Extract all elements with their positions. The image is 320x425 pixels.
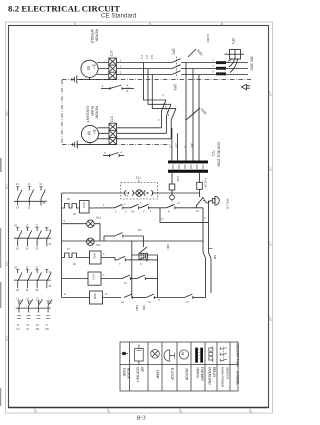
svg-text:MOTOR: MOTOR <box>185 369 189 382</box>
fuse FU1a <box>216 61 226 64</box>
svg-text:PE: PE <box>46 328 50 331</box>
svg-text:CE Standard: CE Standard <box>101 13 137 20</box>
outer light frame <box>6 22 273 413</box>
stop button SB1 <box>115 204 131 209</box>
annotation -KM1 with leader <box>188 48 204 57</box>
wires fuses to socket <box>228 59 238 73</box>
svg-text:MOTOR: MOTOR <box>95 106 99 119</box>
relay box KA1 <box>80 201 90 214</box>
symbol fuse block <box>122 352 129 355</box>
svg-text:FU3: FU3 <box>176 176 180 182</box>
aux group 1 contact a <box>16 183 22 210</box>
overload contact FR1 <box>62 204 80 209</box>
svg-text:EL1: EL1 <box>136 176 141 180</box>
wire rung C <box>80 258 118 260</box>
labels bottom rung <box>135 299 161 311</box>
interlock switch S2 <box>103 153 124 158</box>
contact on rung C1 <box>117 256 139 261</box>
lamp assembly dashed box <box>121 183 158 200</box>
frame tick top 1 <box>74 22 76 26</box>
dash-dot enclosure left <box>61 80 63 145</box>
fuse FU1c <box>216 72 226 75</box>
aux group 4 contact a <box>17 298 24 313</box>
svg-text:8-3: 8-3 <box>137 415 146 422</box>
main line L1 <box>116 62 248 64</box>
svg-text:KA1: KA1 <box>82 203 86 209</box>
timer coil hatched <box>139 236 148 260</box>
aux group 3 contact a <box>15 266 23 292</box>
transformer TC1 secondary bar <box>168 170 208 173</box>
svg-text:2L2: 2L2 <box>145 55 148 60</box>
fuse FU3 <box>169 184 175 190</box>
left rail <box>61 193 63 298</box>
dash-dot enclosure second <box>62 144 170 146</box>
right rail A <box>203 208 206 298</box>
wires motor1 to block <box>97 63 109 75</box>
wire switch to horn wavy <box>203 200 212 203</box>
motor M2 coolant pump <box>81 125 98 142</box>
plug under FU3 <box>170 195 175 202</box>
table outer <box>120 342 238 391</box>
svg-text:N: N <box>46 324 48 327</box>
annotation -KM2 with leader <box>186 107 208 120</box>
contact rung D2 <box>137 275 158 280</box>
svg-text:PUMP: PUMP <box>90 106 94 117</box>
svg-text:M: M <box>87 131 92 135</box>
frame tick top 2 <box>149 22 151 26</box>
svg-text:E: E <box>269 316 271 320</box>
symbol contactor <box>135 345 144 365</box>
secondary tap with fuse FU3 <box>171 173 173 184</box>
symbol motor <box>179 350 188 359</box>
ground PE motor1 <box>72 75 77 83</box>
svg-text:N: N <box>50 302 52 305</box>
contactor KM2 pole 3 <box>171 109 176 139</box>
aux group 3 contact d <box>45 269 52 288</box>
main line L2 <box>116 68 248 70</box>
dash-dot enclosure top <box>62 79 251 81</box>
svg-text:KA2: KA2 <box>93 253 97 259</box>
aux group 2 contact c <box>35 225 41 251</box>
svg-text:B: B <box>6 111 8 115</box>
vertical drop from rung1 <box>160 208 209 223</box>
frame tick left set <box>6 115 10 340</box>
svg-text:FUSE: FUSE <box>122 368 126 377</box>
motor M1 spindle <box>81 60 98 77</box>
aux group 2 bar <box>14 237 51 239</box>
symbol e-stop <box>164 350 175 361</box>
svg-text:CONTROL 150W: CONTROL 150W <box>217 142 221 167</box>
svg-text:FU2 2A: FU2 2A <box>204 178 208 188</box>
svg-text:5 6: 5 6 <box>131 210 135 214</box>
terminal block XT2 <box>109 58 117 79</box>
svg-text:3~: 3~ <box>92 129 97 134</box>
wire switch bottom to rung <box>196 206 198 208</box>
contactor KM2 pole 1 <box>162 100 167 128</box>
zone digits frame <box>6 22 272 413</box>
timer box KT <box>88 272 101 285</box>
aux group 4 bottom labels <box>17 324 50 331</box>
aux group 4 terminal marks <box>17 316 50 319</box>
svg-text:3L3: 3L3 <box>150 55 153 60</box>
desc fuse block <box>122 368 131 380</box>
contactor KM2 pole 2 <box>167 104 172 133</box>
symbol overload <box>209 347 213 363</box>
symbol lamp <box>151 350 160 359</box>
aux group 4 contact d <box>46 300 52 313</box>
frame tick top 3 <box>221 22 223 26</box>
transformer winding ticks <box>173 165 203 170</box>
svg-text:B: B <box>269 91 271 95</box>
transformer TC1 primary bar <box>168 161 208 164</box>
secondary tap with fuse FU2 <box>199 173 201 183</box>
bottom rung <box>62 297 122 299</box>
contact rung D1 <box>122 275 137 280</box>
micro wire labels top <box>120 34 215 122</box>
label mains right <box>250 56 254 71</box>
desc overload <box>208 367 217 385</box>
svg-text:4PC1 B: 4PC1 B <box>226 199 230 209</box>
taps to transformer primary <box>186 63 199 161</box>
contactor KM1 pole 1 <box>172 59 181 63</box>
svg-text:U: U <box>162 94 164 97</box>
socket XP1 <box>225 50 245 60</box>
svg-text:M: M <box>86 66 91 70</box>
svg-text:1L1: 1L1 <box>140 55 143 60</box>
aux group 1 contact c <box>39 183 46 206</box>
desc main power switch <box>221 367 230 388</box>
svg-text:KT1: KT1 <box>92 275 96 281</box>
svg-text:XT2: XT2 <box>109 51 113 57</box>
button SB3 <box>141 204 167 209</box>
KM1 link dashed <box>176 57 178 78</box>
svg-text:D: D <box>6 261 8 265</box>
svg-text:KM: KM <box>213 255 217 260</box>
terminal block XT3 <box>109 123 117 144</box>
contact KA right <box>167 204 204 209</box>
svg-text:C: C <box>6 184 8 188</box>
control feed rail top <box>62 192 119 194</box>
svg-text:M: M <box>181 352 186 355</box>
svg-text:SWITCH: SWITCH <box>226 367 230 379</box>
taps from pump lines to primary <box>172 128 178 161</box>
svg-text:3PH 380V: 3PH 380V <box>250 56 254 71</box>
contact KT upper <box>104 233 143 242</box>
svg-text:220: 220 <box>175 143 179 148</box>
wire rung D <box>62 278 122 280</box>
contact bottom 1 <box>124 294 146 299</box>
svg-text:AC380V: AC380V <box>206 34 209 43</box>
contact on rung C2 <box>139 256 158 261</box>
frame tick bottom set <box>35 408 250 413</box>
aux group 3 bar <box>14 279 51 281</box>
motor M1 label M 3~ <box>86 64 97 70</box>
S1 labels <box>102 84 129 94</box>
main line L3 <box>116 74 248 76</box>
right rail B <box>209 203 212 293</box>
aux group 2 contact a <box>15 225 23 251</box>
wires motor2 to block <box>97 128 109 139</box>
micro pin labels <box>64 195 207 305</box>
svg-text:MAIN POWER: MAIN POWER <box>221 367 225 388</box>
svg-text:OR: OR <box>140 367 144 372</box>
contact bottom 3 <box>185 294 206 299</box>
lamp box top tick <box>136 176 141 183</box>
inner frame <box>9 26 269 408</box>
fuse FU2 <box>197 182 203 189</box>
symbol main switch <box>220 347 227 362</box>
svg-text:QF1: QF1 <box>172 49 176 55</box>
frame tick right set <box>269 95 273 320</box>
branch taps down <box>144 63 177 109</box>
button SB2 <box>131 204 141 209</box>
aux group 4 contact c <box>36 298 43 313</box>
rail B top hook <box>208 201 210 204</box>
svg-text:KM1: KM1 <box>166 244 170 250</box>
svg-text:RELAY: RELAY <box>212 367 216 378</box>
aux group 2 contact d <box>45 228 52 247</box>
relay box KA2 <box>90 251 102 264</box>
arrow mains <box>242 84 251 89</box>
bottom heavy line <box>9 407 269 409</box>
svg-text:XP1: XP1 <box>231 38 235 44</box>
aux group 1 bar <box>14 200 47 202</box>
aux group 2 contact b <box>26 225 32 251</box>
svg-text:3~: 3~ <box>92 64 97 69</box>
overload contact FR2 <box>62 253 80 258</box>
pilot lamp HL1 <box>62 220 100 241</box>
contact bottom 2 <box>146 294 185 299</box>
table row divider <box>120 364 238 366</box>
svg-text:SPINDLE: SPINDLE <box>90 29 94 44</box>
vertical mid rail <box>131 241 133 298</box>
wire KA1 to contacts <box>89 207 115 209</box>
mesh rect <box>132 255 158 298</box>
svg-text:XT3: XT3 <box>110 116 114 122</box>
label SPINDLE MOTOR <box>90 29 99 44</box>
interlock switch S1 <box>101 85 134 90</box>
svg-text:HL1: HL1 <box>96 216 102 220</box>
svg-text:OVERLOAD: OVERLOAD <box>208 367 212 385</box>
svg-text:KM2: KM2 <box>135 305 139 311</box>
table column dividers <box>130 342 231 391</box>
lamp box internal wire <box>119 192 200 194</box>
aux group 4 bar <box>16 307 51 309</box>
desc contactor <box>136 367 145 382</box>
S2 labels <box>104 151 123 156</box>
svg-text:DESCRIPTION: DESCRIPTION <box>236 344 240 368</box>
svg-text:LAMP: LAMP <box>156 370 160 379</box>
svg-text:TC1: TC1 <box>211 150 215 156</box>
connector half XS2 <box>144 190 153 195</box>
svg-text:E-STOP: E-STOP <box>170 368 174 380</box>
svg-text:E: E <box>6 336 8 340</box>
desc transformer <box>196 367 205 382</box>
label FU2 2A <box>176 176 208 188</box>
svg-text:COOLANT: COOLANT <box>86 106 90 122</box>
svg-text:FORMER: FORMER <box>200 367 204 382</box>
switch SA horn <box>197 197 205 206</box>
svg-text:BLOCK: BLOCK <box>127 368 131 380</box>
svg-text:KT: KT <box>138 228 142 232</box>
aux group 1 contact b <box>28 183 34 210</box>
aux group 4 contact b <box>26 298 33 313</box>
contactor KM1 pole 2 <box>172 65 181 69</box>
horn HA <box>212 196 219 205</box>
zero volt return line <box>62 240 203 242</box>
ground PE motor2 <box>72 141 77 149</box>
svg-text:TRANS-: TRANS- <box>196 367 200 379</box>
pilot lamp HL2 <box>87 238 95 246</box>
contactor KM1 pole 3 <box>172 71 181 75</box>
svg-text:HL2: HL2 <box>96 244 101 247</box>
svg-text:380: 380 <box>190 143 194 148</box>
scan edge marks <box>0 158 2 406</box>
aux group 3 contact b <box>26 266 32 292</box>
svg-text:QS1: QS1 <box>173 84 177 91</box>
svg-text:CONTACT: CONTACT <box>136 367 140 382</box>
svg-text:SYMBOL: SYMBOL <box>236 371 240 385</box>
svg-text:KM1: KM1 <box>93 294 97 301</box>
svg-text:D: D <box>269 241 271 245</box>
contact labels row1 <box>115 210 170 214</box>
svg-text:C: C <box>269 166 271 170</box>
svg-text:MOTOR: MOTOR <box>95 29 99 42</box>
aux group 3 contact c <box>35 266 41 292</box>
wire motor2 frame to ground <box>77 143 110 145</box>
label COOLANT PUMP MOTOR <box>86 106 99 122</box>
primary tap labels <box>169 143 195 148</box>
motor M2 label M 3~ <box>87 129 98 135</box>
coil KM1 <box>90 291 103 304</box>
wire motor1 frame to ground <box>77 77 110 79</box>
plug symbol XS1 <box>125 190 134 195</box>
svg-text:SQ1: SQ1 <box>142 305 146 311</box>
rail jog tick <box>209 247 213 249</box>
work lamp EL <box>136 190 143 197</box>
symbol transformer <box>195 348 203 363</box>
fuse FU1b <box>216 67 226 70</box>
KM2 link dashed <box>164 103 170 118</box>
wires KM2 to motor2 block <box>117 128 172 139</box>
